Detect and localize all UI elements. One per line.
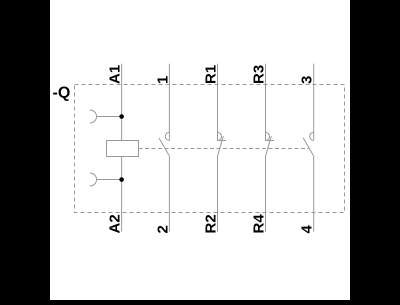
svg-text:2: 2 [154,225,171,233]
node A1 junction dot [119,114,124,119]
contact 1-2 blade [159,138,169,155]
svg-text:4: 4 [299,225,316,234]
contact 3-4 blade [303,138,313,155]
wire contact 4 bottom [313,155,315,231]
wire contact R4 bottom [265,156,267,232]
contact R1-R2 NC arc [218,132,222,140]
wire contact R2 bottom [217,156,219,232]
contact 3-4 NO arc [310,132,314,140]
svg-text:1: 1 [154,76,171,84]
terminal arc A1 [90,110,97,123]
wire contact R1 top [217,64,219,141]
node A2 junction dot [119,177,124,182]
wire contact 3 top [313,64,315,141]
svg-text:A2: A2 [107,214,124,233]
wire contact 1 top [168,64,170,141]
wire A1 stub [96,116,121,118]
wire contact 2 bottom [168,155,170,231]
contact R1-R2 NC bar [218,140,227,142]
dashed enclosure box [75,85,345,213]
svg-text:R1: R1 [203,65,220,84]
wire mechanical link dashed [139,148,310,150]
wire A2 bottom [121,157,123,232]
wire A1 top [121,64,123,141]
svg-text:A1: A1 [107,65,124,84]
contact R3-R4 NC arc [266,132,270,140]
wire A2 stub [96,179,121,181]
contact 1-2 NO arc [165,132,169,140]
svg-text:3: 3 [299,76,316,84]
svg-text:R4: R4 [251,214,268,234]
wire contact R3 top [265,64,267,141]
coil K1 [107,141,139,157]
contact R3-R4 NC bar [266,140,275,142]
svg-text:R2: R2 [203,214,220,233]
svg-text:R3: R3 [251,65,268,84]
contact R3-R4 blade [266,136,272,155]
terminal arc A2 [90,173,97,186]
svg-text:-Q: -Q [53,85,71,102]
contact R1-R2 blade [218,136,224,155]
